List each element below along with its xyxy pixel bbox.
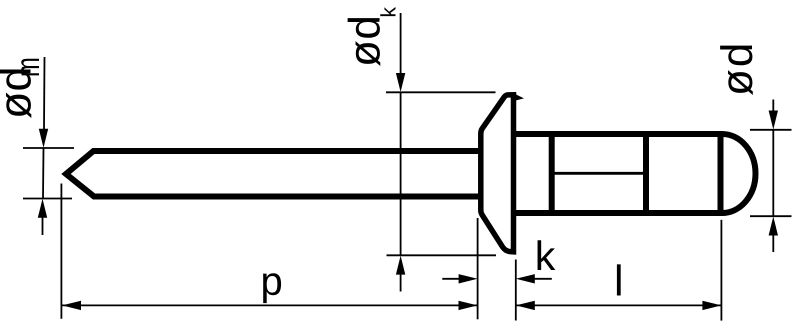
dimension o-dk lower arrowhead: [396, 256, 405, 275]
dimension p right arrowhead: [459, 301, 478, 310]
dimension p line: [62, 304, 478, 306]
dimension o-d span segment: [772, 130, 774, 216]
label o-dk subscript k: [380, 7, 395, 16]
dimension o-dm upper shaft: [43, 57, 46, 130]
body end line (dome tangent): [718, 134, 724, 213]
label o-dm subscript m: [21, 59, 39, 76]
dimension l left arrowhead: [516, 301, 535, 310]
dimension o-d upper shaft: [772, 100, 774, 113]
dimension l line: [516, 304, 722, 306]
dimension o-dm lower arrowhead: [38, 199, 47, 218]
dimension o-dm upper arrowhead: [39, 129, 48, 148]
dimension o-d lower shaft: [772, 234, 774, 253]
dimension o-dk upper tick line: [386, 91, 496, 93]
body section line 2: [643, 134, 649, 213]
mandrel stem line inside body: [552, 172, 646, 175]
dimension l right arrowhead: [702, 301, 721, 310]
label o-dm main glyphs: [0, 69, 31, 118]
label o-d glyphs: [720, 45, 753, 95]
rivet body (sleeve) with domed right end: [514, 134, 756, 213]
dimension o-dk upper shaft: [400, 13, 402, 74]
dimension o-dm span segment: [42, 148, 45, 199]
dimension k left shaft: [442, 278, 460, 280]
extension line at flange left face: [477, 218, 479, 319]
dimension o-d lower arrowhead: [769, 217, 778, 236]
extension line at flange right face: [515, 260, 517, 321]
label o-dk main glyphs: [348, 18, 381, 66]
dimension o-dm lower tick line: [23, 198, 72, 200]
dimension p left arrowhead: [62, 301, 81, 310]
extension line at body end: [720, 220, 722, 321]
extension line at mandrel tip: [60, 184, 62, 319]
dimension o-d upper tick line: [750, 129, 792, 131]
label k: [538, 240, 556, 270]
dimension k right arrowhead: [516, 274, 535, 283]
dimension k left arrowhead: [459, 274, 478, 283]
dimension o-dk lower tick line: [387, 254, 497, 256]
dimension o-dm upper tick line: [23, 147, 74, 149]
body section line 1: [549, 134, 555, 213]
rivet mandrel (pin) with pointed tip: [66, 151, 481, 197]
dimension line o-dk vertical segment crossing the mandrel: [400, 92, 402, 255]
flange head rim spike (top right): [512, 92, 525, 101]
label p: [263, 273, 281, 303]
dimension o-dm lower shaft: [42, 216, 44, 235]
dimension o-d upper arrowhead: [769, 111, 778, 130]
dimension k right shaft: [533, 278, 552, 280]
label l: [617, 264, 621, 295]
dimension o-dk upper arrowhead: [396, 73, 405, 92]
dimension o-d lower tick line: [750, 215, 792, 217]
dimension o-dk lower shaft: [400, 273, 402, 292]
rivet flange head: [481, 95, 514, 252]
